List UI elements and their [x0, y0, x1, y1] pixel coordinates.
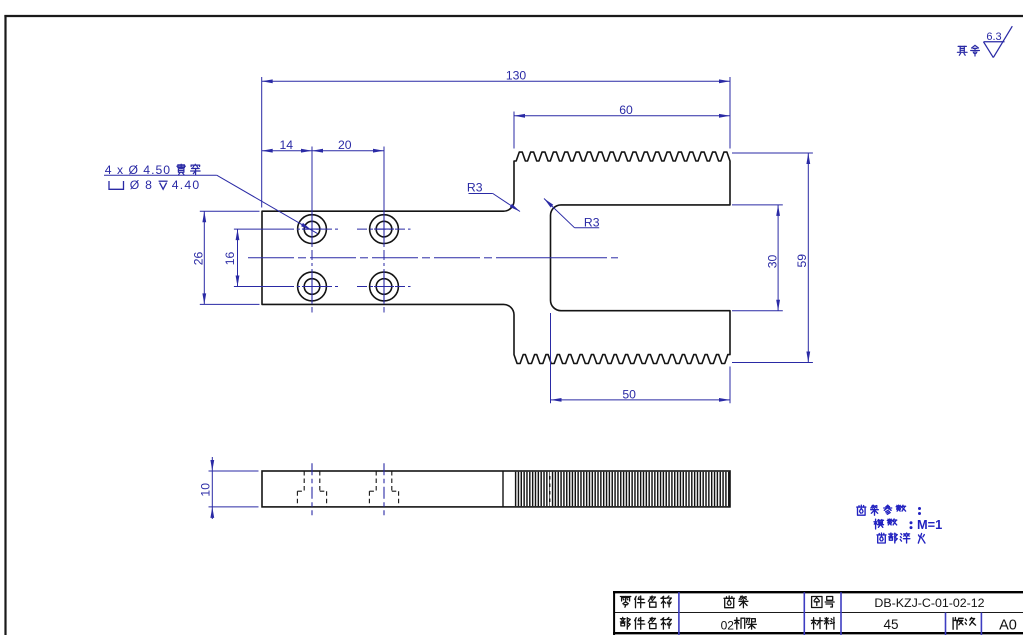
svg-text:A0: A0	[999, 618, 1017, 634]
svg-text:M=1: M=1	[917, 517, 942, 532]
svg-text:DB-KZJ-C-01-02-12: DB-KZJ-C-01-02-12	[874, 596, 984, 610]
svg-text:30: 30	[766, 255, 780, 269]
svg-text:6.3: 6.3	[986, 31, 1001, 43]
svg-text:Ø 8: Ø 8	[130, 178, 153, 192]
svg-text:59: 59	[795, 254, 809, 268]
svg-text:10: 10	[198, 483, 212, 497]
svg-text:4.40: 4.40	[172, 178, 201, 192]
svg-text:60: 60	[619, 103, 633, 117]
svg-text:R3: R3	[467, 181, 483, 195]
svg-text:16: 16	[223, 252, 237, 266]
svg-text:45: 45	[883, 617, 898, 632]
svg-text:26: 26	[192, 252, 206, 266]
svg-text:50: 50	[622, 388, 636, 402]
svg-text:4 x Ø 4.50: 4 x Ø 4.50	[105, 163, 171, 177]
svg-text:20: 20	[338, 138, 352, 152]
svg-text:02: 02	[721, 618, 735, 632]
svg-text:130: 130	[506, 69, 527, 83]
svg-text:14: 14	[280, 138, 294, 152]
